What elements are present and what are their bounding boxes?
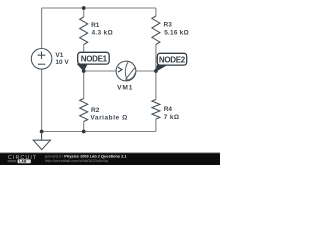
CircuitLab logo: [8, 155, 38, 164]
svg-text:NODE1: NODE1: [81, 55, 108, 64]
watermark bar: [0, 152, 220, 153]
junction dot bottom (R2 tap): [82, 130, 86, 134]
svg-text:VM1: VM1: [117, 85, 133, 92]
resistor R4: [152, 100, 160, 120]
svg-text:R2: R2: [91, 107, 100, 114]
resistor R1: [80, 17, 88, 45]
svg-text:LAB: LAB: [19, 160, 27, 164]
svg-text:http://circuitlab.com/c6db3833: http://circuitlab.com/c6db3833b5c0q/: [45, 158, 109, 163]
svg-text:7 kΩ: 7 kΩ: [164, 114, 180, 121]
svg-text:Variable Ω: Variable Ω: [90, 114, 127, 121]
voltmeter VM1: [116, 61, 136, 81]
svg-text:4.3 kΩ: 4.3 kΩ: [92, 30, 113, 37]
svg-text:R3: R3: [164, 21, 173, 28]
voltage source V1: [31, 49, 52, 70]
wire R1/R2 leads column: [83, 8, 85, 132]
junction dot top (R1 tap): [82, 6, 86, 10]
svg-text:R1: R1: [91, 22, 100, 29]
wire R3/R4 leads column: [155, 8, 157, 132]
svg-text:5.16 kΩ: 5.16 kΩ: [164, 30, 189, 37]
junction dot node A (NODE1 point): [82, 69, 86, 73]
node label NODE1: [78, 52, 110, 70]
svg-text:R4: R4: [164, 106, 173, 113]
svg-text:NODE2: NODE2: [159, 55, 186, 64]
resistor R3: [152, 16, 160, 45]
node label NODE2: [156, 53, 187, 71]
ground: [33, 132, 50, 150]
svg-text:10 V: 10 V: [55, 59, 69, 66]
wire top rail: [42, 7, 156, 9]
wire middle (node1 - voltmeter - node2): [84, 70, 156, 72]
resistor R2: [80, 99, 88, 122]
wire bottom rail: [42, 131, 156, 133]
junction dot bottom left (ground tap): [40, 130, 44, 134]
junction dot node B (NODE2 point): [154, 69, 158, 73]
wire left column (V1 branch): [41, 8, 43, 132]
